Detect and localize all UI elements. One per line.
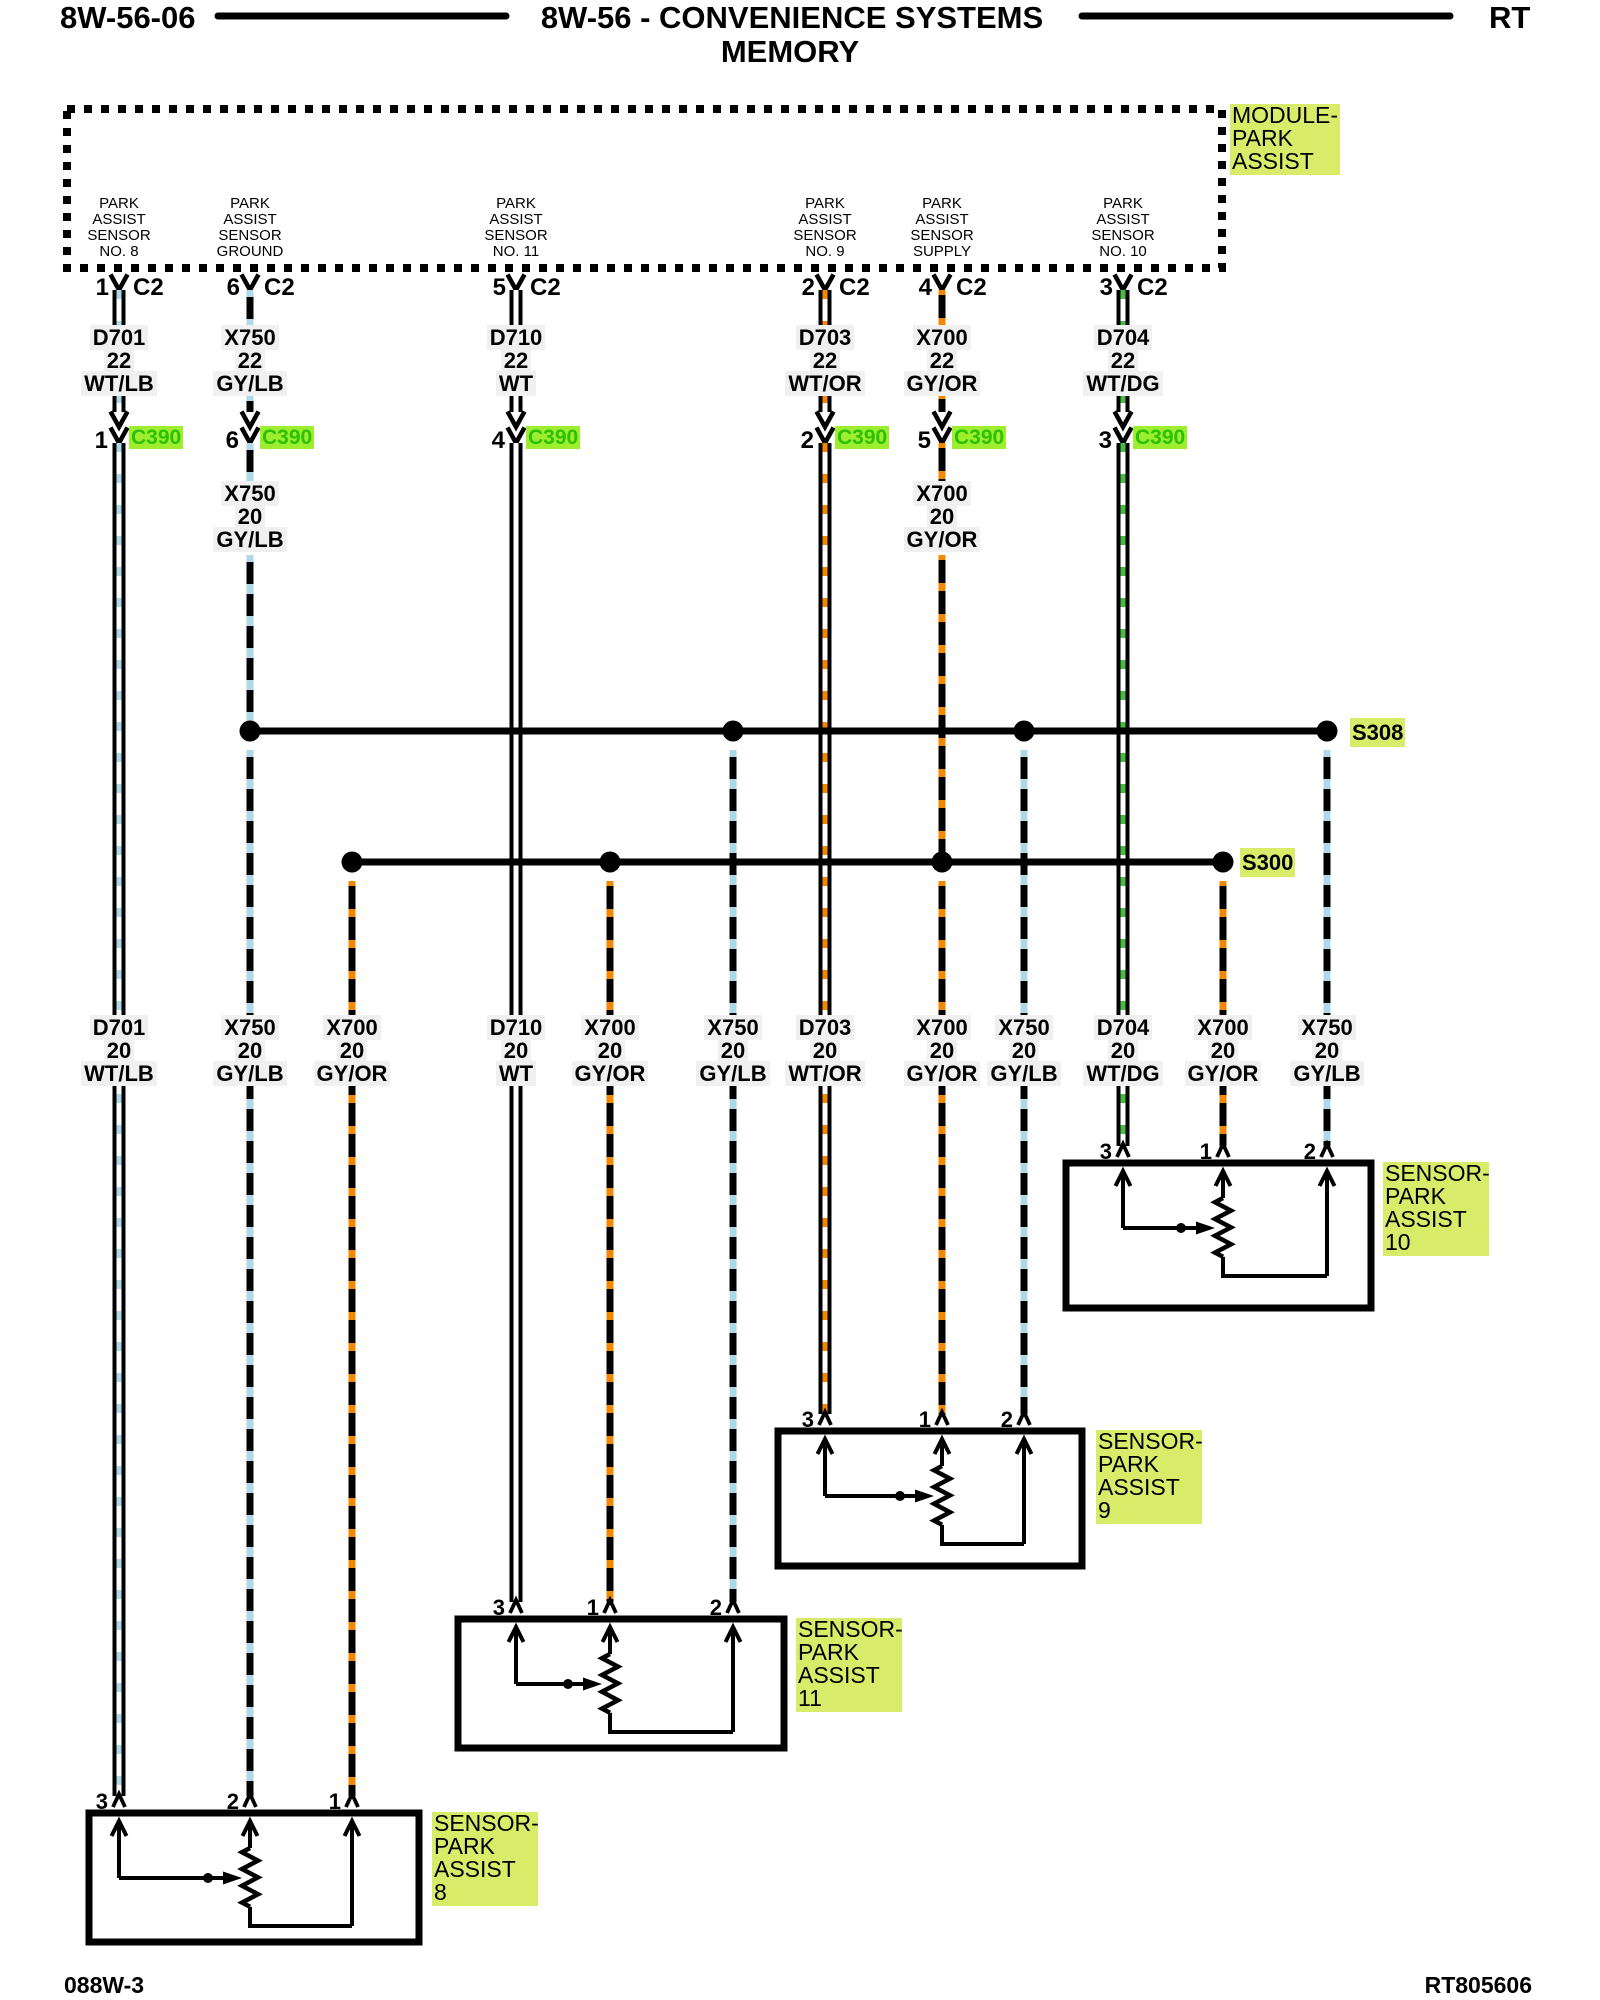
label sensor 10 pin 3 number	[1062, 1139, 1112, 1165]
label wire label D703 22 WT/OR	[745, 326, 905, 395]
sensor 11 wire from resistor to right pin	[608, 1627, 741, 1732]
label connector C390 at pin 1	[129, 428, 183, 447]
splice S300 bus	[352, 859, 1223, 866]
sensor 9 right pin chevron	[1018, 1412, 1030, 1425]
label sensor 8 pin 2 number	[189, 1789, 239, 1815]
in-line connector chevron above C390 pin 2	[817, 412, 834, 428]
label park assist sensor function at x=942	[872, 196, 1012, 260]
sensor 11 right pin chevron	[727, 1600, 739, 1613]
junction S308 branch to sensor 9 pin 2	[1014, 721, 1035, 742]
connector C390 pin 2 chevron	[817, 428, 834, 444]
label sensor 10 pin 1 number	[1162, 1139, 1212, 1165]
wire D701 20 WT/LB (C390 pin 1 to sensor 8 pin 3)	[113, 443, 126, 1796]
sensor 10 potentiometer wiper	[1123, 1222, 1215, 1235]
wire X750 22 GY/LB (C2 pin 6 to label)	[247, 290, 254, 327]
label sensor 8 pin 1 number	[291, 1789, 341, 1815]
sensor 8 potentiometer wiper	[119, 1872, 242, 1885]
label sensor 9 pin 3 number	[764, 1407, 814, 1433]
label sensor 11 pin 2 number	[672, 1595, 722, 1621]
label connector C390 at pin 5	[952, 428, 1006, 447]
sensor 11 potentiometer resistor	[602, 1627, 618, 1732]
wire X700 22 GY/OR (C2 pin 4 to label)	[939, 290, 946, 327]
header rule right	[1082, 13, 1450, 20]
in-line connector chevron above C390 pin 6	[242, 412, 259, 428]
label wire label X700 22 GY/OR	[862, 326, 1022, 395]
wire X750 20 GY/LB (S308 to sensor 11 pin 2)	[730, 750, 737, 1602]
sensor 10 internal arrow from left pin	[1116, 1171, 1131, 1228]
label wire label X700 20 GY/OR below C390	[862, 482, 1022, 551]
sensor 8 left pin chevron	[113, 1794, 125, 1807]
junction S300 branch to sensor 8 pin 1	[342, 852, 363, 873]
connector C2 pin 3 chevron	[1115, 275, 1132, 291]
sensor 8 internal arrow from left pin	[112, 1821, 127, 1878]
in-line connector chevron above C390 pin 1	[111, 412, 128, 428]
label footer 088W-3	[64, 1972, 144, 1999]
label park assist sensor function at x=825	[755, 196, 895, 260]
label wire label X700 20 GY/OR at x=942	[862, 1016, 1022, 1085]
junction S308 branch to sensor 10 pin 2	[1317, 721, 1338, 742]
wire D703 20 WT/OR (C390 pin 2 to sensor 9 pin 3)	[819, 443, 832, 1414]
label wire label D710 22 WT	[436, 326, 596, 395]
label wire label X700 20 GY/OR at x=352	[272, 1016, 432, 1085]
sensor 10 potentiometer resistor	[1215, 1171, 1231, 1276]
label sensor - park assist 8	[432, 1812, 538, 1906]
label C2 pin 2 number	[765, 274, 815, 302]
in-line connector chevron above C390 pin 5	[934, 412, 951, 428]
label connector C390 at pin 6	[260, 428, 314, 447]
junction S300 branch to sensor 10 pin 1	[1213, 852, 1234, 873]
wire X750 22 GY/LB (label to C390)	[247, 394, 254, 412]
sensor 10 left pin chevron	[1117, 1144, 1129, 1157]
label wire label X750 20 GY/LB below C390	[170, 482, 330, 551]
label title 8W-56-06	[60, 0, 196, 36]
sensor 9 middle pin chevron	[936, 1412, 948, 1425]
wire X700 20 GY/OR (S300 to sensor 10 pin 1)	[1220, 881, 1227, 1146]
sensor 9 wire from resistor to right pin	[940, 1439, 1032, 1544]
junction S308 at X750 from C390	[240, 721, 261, 742]
label connector C2 name at pin 1	[133, 274, 164, 302]
junction S308 branch to sensor 11 pin 2	[723, 721, 744, 742]
label wire label X750 20 GY/LB at x=733	[653, 1016, 813, 1085]
wire X700 20 GY/OR (S300 to sensor 11 pin 1)	[607, 881, 614, 1602]
label sensor 8 pin 3 number	[58, 1789, 108, 1815]
sensor 10 middle pin chevron	[1217, 1144, 1229, 1157]
sensor 9 left pin chevron	[819, 1412, 831, 1425]
label connector C390 at pin 2	[835, 428, 889, 447]
label sensor 11 pin 1 number	[549, 1595, 599, 1621]
sensor 11 middle pin chevron	[604, 1600, 616, 1613]
label wire label D704 22 WT/DG	[1043, 326, 1203, 395]
label wire label X700 20 GY/OR at x=610	[530, 1016, 690, 1085]
wire D703 22 WT/OR (label to C390)	[819, 394, 832, 412]
sensor 11 left pin chevron	[510, 1600, 522, 1613]
sensor - park assist 9 box	[778, 1431, 1082, 1566]
in-line connector chevron above C390 pin 4	[508, 412, 525, 428]
label wire label X750 20 GY/LB at x=1327	[1247, 1016, 1407, 1085]
label C2 pin 5 number	[456, 274, 506, 302]
label park assist sensor function at x=250	[180, 196, 320, 260]
sensor 9 internal arrow from left pin	[818, 1439, 833, 1496]
sensor - park assist 11 box	[458, 1619, 784, 1748]
label wire label X750 20 GY/LB at x=1024	[944, 1016, 1104, 1085]
sensor 8 wire from resistor to right pin	[248, 1821, 360, 1926]
sensor 11 potentiometer wiper	[516, 1678, 602, 1691]
connector C390 pin 3 chevron	[1115, 428, 1132, 444]
label wire label D710 20 WT at x=516	[436, 1016, 596, 1085]
connector C390 pin 5 chevron	[934, 428, 951, 444]
label C390 pin 3 number	[1062, 427, 1112, 455]
wire X750 20 GY/LB (S308 to sensor 9 pin 2)	[1021, 750, 1028, 1414]
connector C390 pin 6 chevron	[242, 428, 259, 444]
label sensor - park assist 10	[1383, 1162, 1489, 1256]
label C2 pin 6 number	[190, 274, 240, 302]
sensor 8 middle pin chevron	[244, 1794, 256, 1807]
wire X700 22 GY/OR (label to C390)	[939, 394, 946, 412]
junction S300 at X700 from C390	[932, 852, 953, 873]
wire X750 20 GY/LB (C390 pin 6 to label)	[247, 443, 254, 486]
label park assist sensor function at x=516	[446, 196, 586, 260]
connector C2 pin 1 chevron	[111, 275, 128, 291]
label connector C2 name at pin 5	[530, 274, 561, 302]
label sensor 9 pin 1 number	[881, 1407, 931, 1433]
label C390 pin 1 number	[58, 427, 108, 455]
wire D701 22 WT/LB (label to C390)	[113, 394, 126, 412]
wire X700 20 GY/OR (label to splice S300)	[939, 555, 946, 862]
label wire label X700 20 GY/OR at x=1223	[1143, 1016, 1303, 1085]
label module - park assist	[1230, 104, 1340, 175]
sensor 8 potentiometer resistor	[242, 1821, 258, 1926]
connector C2 pin 6 chevron	[242, 275, 259, 291]
sensor - park assist 10 box	[1066, 1163, 1371, 1308]
label wire label X750 20 GY/LB at x=250	[170, 1016, 330, 1085]
label C2 pin 3 number	[1063, 274, 1113, 302]
label title MEMORY	[490, 34, 1090, 70]
connector C2 pin 2 chevron	[817, 275, 834, 291]
label wire label D701 22 WT/LB	[39, 326, 199, 395]
wire X700 20 GY/OR (C390 pin 5 to label)	[939, 443, 946, 486]
label sensor - park assist 11	[796, 1618, 902, 1712]
label C390 pin 4 number	[455, 427, 505, 455]
connector C390 pin 4 chevron	[508, 428, 525, 444]
wire D704 22 WT/DG (label to C390)	[1117, 394, 1130, 412]
module - park assist dashed box	[67, 109, 1222, 268]
label C2 pin 1 number	[59, 274, 109, 302]
label park assist sensor function at x=1123	[1053, 196, 1193, 260]
sensor 8 right pin chevron	[346, 1794, 358, 1807]
label title RT	[1489, 0, 1530, 36]
wire D710 20 WT (C390 pin 4 to sensor 11 pin 3)	[510, 443, 523, 1602]
label wire label X750 22 GY/LB	[170, 326, 330, 395]
wire D701 22 WT/LB (C2 pin 1 to label)	[113, 290, 126, 327]
wire D710 22 WT (C2 pin 5 to label)	[510, 290, 523, 327]
label sensor - park assist 9	[1096, 1430, 1202, 1524]
connector C390 pin 1 chevron	[111, 428, 128, 444]
sensor 11 internal arrow from left pin	[509, 1627, 524, 1684]
sensor 10 right pin chevron	[1321, 1144, 1333, 1157]
wire X750 20 GY/LB (S308 to sensor 8 pin 2)	[247, 750, 254, 1796]
wire D703 22 WT/OR (C2 pin 2 to label)	[819, 290, 832, 327]
label connector C2 name at pin 4	[956, 274, 987, 302]
label wire label D703 20 WT/OR at x=825	[745, 1016, 905, 1085]
connector C2 pin 4 chevron	[934, 275, 951, 291]
sensor 10 wire from resistor to right pin	[1221, 1171, 1335, 1276]
wire X750 20 GY/LB (S308 to sensor 10 pin 2)	[1324, 750, 1331, 1146]
label wire label D704 20 WT/DG at x=1123	[1043, 1016, 1203, 1085]
label title 8W-56 - CONVENIENCE SYSTEMS	[492, 0, 1092, 36]
wire D704 20 WT/DG (C390 pin 3 to sensor 10 pin 3)	[1117, 443, 1130, 1146]
label C390 pin 2 number	[764, 427, 814, 455]
wire X700 20 GY/OR (S300 to sensor 8 pin 1)	[349, 881, 356, 1796]
label sensor 9 pin 2 number	[963, 1407, 1013, 1433]
label connector C390 at pin 3	[1133, 428, 1187, 447]
label splice S300	[1240, 852, 1295, 874]
label sensor 10 pin 2 number	[1266, 1139, 1316, 1165]
label park assist sensor function at x=119	[49, 196, 189, 260]
label C390 pin 5 number	[881, 427, 931, 455]
label sensor 11 pin 3 number	[455, 1595, 505, 1621]
wire X700 20 GY/OR (S300 to sensor 9 pin 1)	[939, 881, 946, 1414]
sensor 9 potentiometer wiper	[825, 1490, 934, 1503]
label splice S308	[1350, 722, 1405, 744]
connector C2 pin 5 chevron	[508, 275, 525, 291]
header rule left	[218, 13, 506, 20]
wire D710 22 WT (label to C390)	[510, 394, 523, 412]
label wire label D701 20 WT/LB at x=119	[39, 1016, 199, 1085]
label connector C2 name at pin 2	[839, 274, 870, 302]
label connector C2 name at pin 6	[264, 274, 295, 302]
label footer RT805606	[1232, 1972, 1532, 1999]
sensor 9 potentiometer resistor	[934, 1439, 950, 1544]
splice S308 bus	[250, 728, 1327, 735]
label connector C2 name at pin 3	[1137, 274, 1168, 302]
label C390 pin 6 number	[189, 427, 239, 455]
wire D704 22 WT/DG (C2 pin 3 to label)	[1117, 290, 1130, 327]
wire X750 20 GY/LB (label to splice S308)	[247, 555, 254, 731]
junction S300 branch to sensor 11 pin 1	[600, 852, 621, 873]
label connector C390 at pin 4	[526, 428, 580, 447]
sensor - park assist 8 box	[89, 1813, 419, 1942]
in-line connector chevron above C390 pin 3	[1115, 412, 1132, 428]
label C2 pin 4 number	[882, 274, 932, 302]
